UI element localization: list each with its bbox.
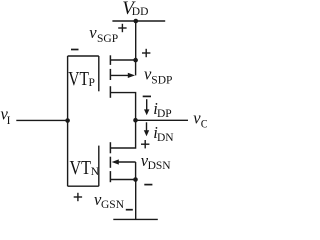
transistor VT_P gate plate <box>98 56 100 91</box>
svg-text:GSN: GSN <box>101 199 125 211</box>
current arrow iDN shaft <box>146 122 148 131</box>
svg-text:O: O <box>201 118 207 130</box>
transistor VT_P box top edge <box>68 55 99 57</box>
wire NMOS body connection <box>118 161 136 163</box>
label v_SGP <box>89 23 118 45</box>
transistor VT_N box bottom edge <box>68 185 99 187</box>
svg-text:I: I <box>7 115 11 127</box>
ground rail <box>113 218 158 220</box>
label i_DP <box>153 99 171 120</box>
svg-text:VT: VT <box>68 69 89 90</box>
minus sign vDSN <box>144 184 152 186</box>
svg-text:P: P <box>89 77 95 89</box>
minus sign vSGP <box>71 49 79 51</box>
arrowhead iDP (points down) <box>144 109 149 115</box>
minus sign vSDP <box>143 95 151 97</box>
svg-text:DSN: DSN <box>148 160 172 172</box>
plus sign vSDP <box>142 49 150 57</box>
wire PMOS source stub <box>111 59 136 61</box>
svg-text:DP: DP <box>157 108 172 120</box>
wire PMOS body connection <box>111 74 130 76</box>
arrowhead PMOS body (points right) <box>128 73 135 78</box>
current arrow iDP shaft <box>146 99 148 110</box>
node PMOS source junction <box>133 58 138 63</box>
arrowhead NMOS body (points left) <box>112 159 119 164</box>
label i_DN <box>153 123 174 144</box>
transistor VT_N gate plate <box>98 146 100 187</box>
label v_GSN <box>94 190 125 211</box>
svg-text:SDP: SDP <box>151 74 172 86</box>
node NMOS source junction <box>133 177 138 182</box>
wire output vO <box>136 119 188 121</box>
wire VDD rail to PMOS source <box>135 21 137 60</box>
svg-text:N: N <box>91 166 100 178</box>
label v_O <box>193 109 209 131</box>
node input junction <box>65 118 70 123</box>
label VT_P <box>68 69 95 90</box>
label v_SDP <box>144 65 172 87</box>
wire NMOS source stub <box>111 179 136 181</box>
wire input vI <box>16 119 67 121</box>
svg-text:DD: DD <box>132 6 149 18</box>
svg-text:VT: VT <box>70 158 92 179</box>
minus sign vGSN <box>126 209 133 211</box>
node VDD junction <box>134 19 139 24</box>
wire NMOS source to ground <box>135 180 137 220</box>
svg-text:DN: DN <box>157 132 174 144</box>
svg-text:SGP: SGP <box>97 33 118 45</box>
arrowhead iDN (points down) <box>144 130 149 136</box>
label v_I <box>1 105 11 127</box>
wire VDD top rail <box>112 20 165 22</box>
plus sign vDSN <box>141 140 149 148</box>
plus sign vSGP <box>118 24 126 32</box>
transistor VT_N channel bars <box>109 142 111 182</box>
label VT_N <box>70 158 100 179</box>
wire gate vertical (left edge of both transistor boxes) <box>67 56 69 186</box>
label v_DSN <box>141 151 172 172</box>
node output junction <box>133 118 138 123</box>
wire PMOS drain stub <box>111 93 136 121</box>
wire NMOS drain stub <box>111 120 136 148</box>
plus sign vGSN <box>74 193 82 201</box>
label V_DD <box>122 0 148 19</box>
transistor VT_P channel bars <box>109 55 111 98</box>
